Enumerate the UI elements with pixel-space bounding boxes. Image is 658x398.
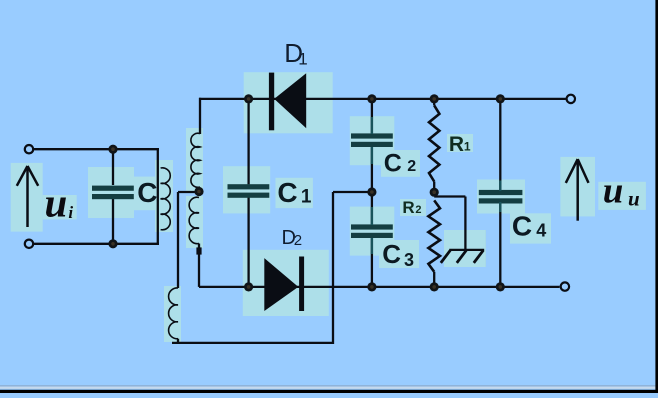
svg-text:i: i [68,203,73,222]
svg-text:C: C [384,150,402,178]
svg-text:4: 4 [536,221,546,241]
svg-text:1: 1 [298,50,307,69]
svg-text:1: 1 [301,187,312,208]
svg-text:C: C [512,211,532,242]
svg-text:C: C [382,239,401,269]
svg-text:2: 2 [415,204,421,216]
svg-text:C: C [137,177,157,208]
svg-text:R: R [449,133,464,156]
svg-text:2: 2 [407,158,416,175]
svg-text:3: 3 [404,250,414,270]
svg-text:u: u [603,171,624,212]
svg-text:u: u [45,179,68,225]
svg-text:C: C [277,177,297,208]
svg-text:2: 2 [294,232,302,249]
svg-text:u: u [628,187,640,211]
svg-text:1: 1 [464,139,471,153]
svg-text:R: R [402,198,414,217]
